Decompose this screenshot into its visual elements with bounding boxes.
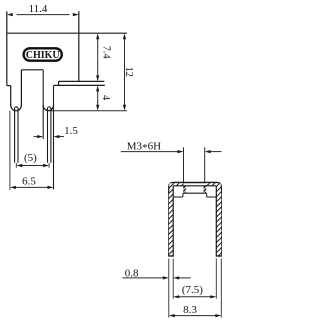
boss step vertical left <box>182 193 184 197</box>
dim (7.5) inner width <box>173 284 216 298</box>
svg-text:1.5: 1.5 <box>64 125 78 137</box>
right tab step vertical <box>58 81 60 85</box>
svg-text:(5): (5) <box>24 152 37 164</box>
extension: outer-left wall line down to 8.3 <box>168 259 170 318</box>
hatch right wall <box>216 193 221 256</box>
dim 8.3 outer width <box>169 304 222 317</box>
thread boss right bar (hatched) <box>204 186 207 193</box>
left leg U bottom arc <box>11 105 22 111</box>
left leg outer edge <box>10 86 12 106</box>
inner wall left line <box>172 186 174 256</box>
svg-text:8.3: 8.3 <box>183 304 197 316</box>
svg-text:(7.5): (7.5) <box>182 284 203 296</box>
right pin wire right line <box>50 108 52 163</box>
right leg pin root fillet arc <box>48 106 51 109</box>
dim 0.8 wall thickness leader <box>123 268 191 280</box>
left shoulder step <box>7 85 11 87</box>
inner wall right line <box>215 186 217 256</box>
hatch top-right band <box>205 183 221 193</box>
dim 6.5 <box>10 111 54 190</box>
svg-text:4: 4 <box>100 95 111 101</box>
left leg inner edge (slot left) <box>20 70 22 106</box>
left pin wire right line <box>17 108 19 163</box>
right tab lower line L2 + 4 extension <box>54 84 105 86</box>
svg-text:CHIKU: CHIKU <box>26 50 60 61</box>
slot between legs, top edge <box>21 69 43 71</box>
dim 12 <box>123 33 134 111</box>
thread hole bottom line <box>183 192 207 194</box>
body outer profile (section) <box>169 183 222 257</box>
right leg left edge (slot right) + 1.5 extension <box>42 70 44 139</box>
extension: inner-left wall line down to 7.5 <box>172 259 174 299</box>
callout extension line right <box>204 147 206 182</box>
svg-text:12: 12 <box>123 67 134 78</box>
svg-text:7.4: 7.4 <box>101 46 112 60</box>
dim 11.4 top width dimension <box>7 3 79 16</box>
wall bottom cap right <box>216 255 222 257</box>
dim 7.4 <box>96 33 112 81</box>
wall bottom cap left <box>168 255 174 257</box>
hatch left wall <box>169 193 173 256</box>
thread boss left bar (hatched) <box>183 186 186 193</box>
right leg U bottom arc <box>43 105 53 110</box>
bottom reference line (12 bottom) <box>48 110 127 112</box>
dim 1.5 <box>34 125 79 138</box>
CHIKU logo stadium <box>24 48 62 61</box>
hatch top-left band <box>169 183 183 193</box>
svg-text:11.4: 11.4 <box>29 3 48 15</box>
M3*6H thread callout <box>121 140 222 154</box>
dim 4 <box>96 85 111 110</box>
extension: outer-right wall line down to 8.3 <box>220 259 222 318</box>
svg-text:6.5: 6.5 <box>22 176 36 188</box>
boss step vertical right <box>206 193 208 197</box>
extension line right (11.4) / clip right edge <box>78 11 80 81</box>
cap underside line <box>173 185 216 187</box>
inner seat line right <box>207 196 217 198</box>
left leg pin root fillet arc <box>15 106 18 109</box>
right tab upper line L1 + 7.4 extension <box>59 80 105 82</box>
right pin wire left line <box>47 108 49 163</box>
right leg outer edge + extension down to 6.5 dim <box>53 85 55 189</box>
left pin wire left line <box>14 108 16 163</box>
extension: inner-right wall line down to 7.5 <box>215 259 217 299</box>
dim (5) <box>16 152 49 168</box>
clip top edge + extension to 12 dim <box>7 32 127 34</box>
extension line left (11.4) / clip left edge <box>6 11 8 85</box>
inner seat line left <box>173 196 183 198</box>
callout extension line left <box>183 147 185 182</box>
